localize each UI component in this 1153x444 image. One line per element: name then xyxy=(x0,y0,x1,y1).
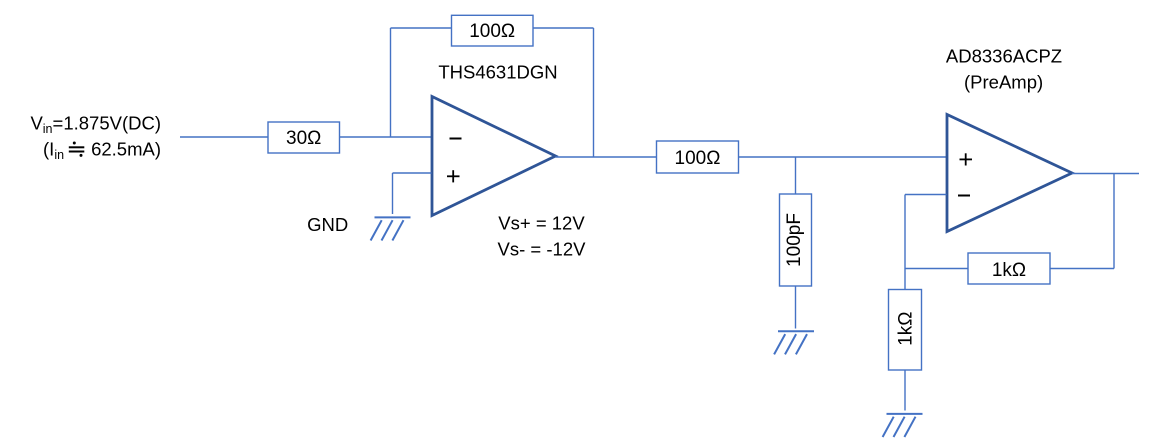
wire feedback top right horizontal xyxy=(533,27,594,29)
wire feedback top left horizontal xyxy=(391,27,452,29)
resistor 100Ω series xyxy=(657,141,739,173)
op-amp U1 plus input symbol xyxy=(447,170,460,182)
op-amp U2 AD8336ACPZ xyxy=(947,115,1072,232)
op-amp U1 minus input symbol xyxy=(450,138,462,140)
label Vs supplies xyxy=(498,213,587,260)
svg-text:AD8336ACPZ: AD8336ACPZ xyxy=(946,45,1062,66)
wire to preamp plus input xyxy=(739,156,947,158)
resistor 1kΩ feedback xyxy=(968,253,1050,284)
op-amp U2 minus input symbol xyxy=(958,195,970,197)
label AD8336ACPZ (PreAmp) xyxy=(946,45,1062,92)
wire plus input down to ground xyxy=(392,173,394,214)
wire 1kΩ to ground xyxy=(904,370,906,411)
svg-text:100Ω: 100Ω xyxy=(675,148,721,169)
svg-text:Vs- = -12V: Vs- = -12V xyxy=(498,239,587,260)
wire op-amp1 output xyxy=(556,156,657,158)
resistor 100Ω feedback xyxy=(452,15,534,46)
wire feedback2 left horizontal xyxy=(905,268,968,270)
svg-text:THS4631DGN: THS4631DGN xyxy=(438,62,557,83)
resistor 30Ω xyxy=(268,122,340,153)
svg-text:GND: GND xyxy=(307,214,348,235)
wire plus input horizontal xyxy=(393,172,432,174)
wire R30 to op-amp inverting input xyxy=(340,136,432,138)
capacitor 100pF xyxy=(780,194,812,286)
svg-text:(PreAmp): (PreAmp) xyxy=(964,71,1043,92)
wire capacitor to ground xyxy=(795,286,797,329)
ground G3 xyxy=(883,414,923,437)
wire input to R30 xyxy=(180,136,268,138)
op-amp U1 THS4631DGN xyxy=(432,97,556,216)
svg-text:100pF: 100pF xyxy=(784,213,805,267)
svg-text:100Ω: 100Ω xyxy=(469,21,515,42)
ground G2 xyxy=(774,331,814,354)
svg-text:Vs+ = 12V: Vs+ = 12V xyxy=(498,213,585,234)
op-amp U2 plus input symbol xyxy=(960,153,973,165)
ground G1 xyxy=(371,217,411,240)
svg-text:1kΩ: 1kΩ xyxy=(896,312,917,346)
wire feedback left vertical xyxy=(390,28,392,137)
wire feedback2 right horizontal xyxy=(1050,268,1114,270)
node Vin input label xyxy=(30,113,161,163)
wire node down to capacitor xyxy=(795,157,797,194)
wire minus node vertical down xyxy=(904,195,906,290)
svg-text:62.5mA): 62.5mA) xyxy=(91,139,161,160)
wire feedback2 vertical up to output xyxy=(1113,174,1115,269)
wire preamp output xyxy=(1072,173,1139,175)
resistor 1kΩ to ground xyxy=(889,290,922,371)
svg-text:1kΩ: 1kΩ xyxy=(992,260,1026,281)
svg-text:30Ω: 30Ω xyxy=(286,128,321,149)
wire preamp minus input horizontal xyxy=(905,194,947,196)
wire feedback right vertical to output xyxy=(593,28,595,157)
